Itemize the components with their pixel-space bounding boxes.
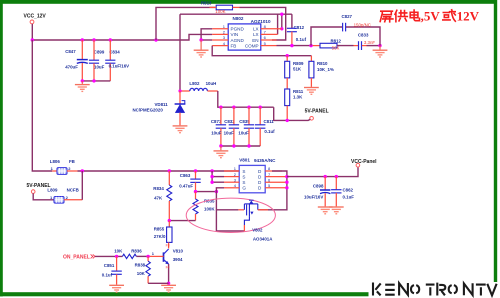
junction dots VCC-Panel rail — [324, 175, 338, 178]
svg-text:10K: 10K — [137, 271, 146, 276]
transistor Q1 V810 3904 — [148, 248, 183, 283]
junction dots output rail — [219, 106, 262, 109]
capacitor C833 — [354, 33, 376, 51]
junction dot AGND — [199, 38, 202, 41]
svg-text:AGND: AGND — [231, 38, 245, 43]
svg-text:VD811: VD811 — [155, 102, 169, 107]
ground below R810 — [304, 88, 319, 95]
wire PGND pin1 to ground junction — [201, 29, 212, 40]
V — [487, 284, 496, 296]
svg-text:56K: 56K — [332, 45, 340, 50]
wire left vertical from 12V bus down to L806 — [32, 40, 52, 171]
svg-text:3.3nF: 3.3nF — [364, 40, 376, 45]
capacitor C811 — [255, 107, 275, 146]
svg-text:10uF/16V: 10uF/16V — [304, 194, 323, 199]
svg-text:EN: EN — [252, 38, 258, 43]
电 — [410, 10, 419, 21]
svg-text:C862: C862 — [343, 187, 354, 192]
inductor L802 10uH — [180, 81, 218, 91]
svg-text:0.1uf: 0.1uf — [264, 129, 275, 134]
svg-text:LX: LX — [253, 32, 259, 37]
transistor Q3 V802 AO3401A — [244, 200, 273, 242]
junction dot R811 bottom — [286, 119, 289, 122]
svg-text:L802: L802 — [189, 81, 200, 86]
svg-text:R834: R834 — [153, 186, 164, 191]
svg-text:10uF: 10uF — [94, 64, 105, 69]
ground below input caps — [75, 81, 90, 92]
svg-text:S: S — [242, 180, 245, 185]
svg-text:10uF: 10uF — [224, 131, 235, 136]
wire FB pin4 run to divider node — [212, 46, 311, 56]
svg-text:ON_PANEL: ON_PANEL — [63, 254, 90, 260]
ground below VD811 — [173, 126, 188, 133]
svg-text:G: G — [242, 186, 246, 191]
svg-text:10K_1%: 10K_1% — [317, 67, 334, 72]
svg-text:0.1uf: 0.1uf — [296, 37, 307, 42]
svg-text:R836: R836 — [131, 248, 142, 253]
op-amp U1 buck regulator N802 AOZ1010 — [212, 16, 282, 50]
svg-text:C863: C863 — [180, 173, 191, 178]
svg-text:NC/PMEG2020: NC/PMEG2020 — [133, 108, 164, 113]
capacitor C862 — [331, 177, 354, 207]
transistor Q2 V801 MOSFET 9435A/NC — [224, 158, 287, 193]
svg-text:VIN: VIN — [231, 32, 239, 37]
wire R838 bottom to emitter — [148, 282, 169, 284]
ground at AGND — [194, 40, 209, 57]
wire R813 right to EN pin6 of N802 — [240, 7, 286, 40]
wire switch node vertical down to L802 — [179, 14, 181, 91]
svg-text:C851: C851 — [104, 263, 115, 268]
svg-text:VCC_12V: VCC_12V — [24, 14, 47, 20]
capacitor C873 — [211, 107, 226, 146]
svg-text:C827: C827 — [342, 14, 353, 19]
svg-text:0.1uF/16V: 0.1uF/16V — [109, 64, 130, 69]
svg-text:10uF: 10uF — [211, 131, 222, 136]
resistor R838 — [135, 256, 151, 283]
svg-text:1: 1 — [50, 195, 53, 200]
diode VD811 NC/PMEG2020 — [133, 91, 186, 125]
wire output rail to 5V-PANEL terminal — [274, 107, 311, 120]
junction dots on LX node — [280, 13, 283, 31]
svg-text:2: 2 — [66, 195, 69, 200]
N — [464, 283, 473, 295]
svg-text:100K: 100K — [215, 9, 225, 14]
wire LX pin7 riser — [277, 14, 279, 34]
junction dot R838 top — [146, 255, 149, 258]
ferrite bead L806 FB — [50, 159, 78, 174]
wire 5V/12V select bus to V801 — [78, 170, 240, 172]
node VCC-Panel terminal — [351, 159, 377, 167]
junction dots gate net — [194, 190, 218, 193]
svg-text:L809: L809 — [47, 187, 58, 192]
capacitor C847 — [65, 40, 88, 81]
wire output rail after L802 — [218, 91, 274, 107]
svg-text:R809: R809 — [293, 61, 304, 66]
svg-text:1.3K: 1.3K — [293, 94, 303, 99]
ground below C862 — [329, 207, 344, 214]
供 — [395, 10, 407, 21]
wire AGND pin3 to ground junction — [201, 39, 212, 41]
N — [399, 283, 408, 296]
wire LX pin8 riser — [281, 14, 283, 29]
svg-text:10uH: 10uH — [206, 81, 217, 86]
capacitor C898 — [304, 177, 330, 207]
ferrite bead L809 NCFB — [33, 187, 82, 203]
ground right of C833 — [373, 46, 388, 57]
junction dots on 12V bus — [31, 38, 158, 41]
junction dots on select bus — [81, 169, 214, 172]
svg-text:51K: 51K — [293, 67, 302, 72]
svg-text:0.47uF: 0.47uF — [179, 184, 193, 189]
svg-text:10K: 10K — [114, 248, 123, 253]
wire V801 source pins tie riser — [211, 171, 213, 182]
svg-text:1: 1 — [51, 166, 54, 171]
svg-text:LX: LX — [253, 27, 259, 32]
junction dot R855 top — [168, 219, 171, 222]
svg-text:C899: C899 — [94, 50, 105, 55]
svg-text:L806: L806 — [50, 159, 61, 164]
svg-text:47K: 47K — [154, 195, 163, 200]
svg-text:NCFB: NCFB — [67, 187, 79, 192]
svg-text:V801: V801 — [239, 158, 250, 163]
svg-text:10uF: 10uF — [238, 131, 249, 136]
svg-text:9435A/NC: 9435A/NC — [254, 158, 276, 163]
junction dots drain bus — [285, 175, 288, 190]
svg-text:S: S — [242, 175, 245, 180]
capacitor C835 — [238, 107, 254, 146]
svg-text:C811: C811 — [264, 119, 275, 124]
svg-text:F4: F4 — [166, 266, 170, 270]
O — [411, 285, 419, 293]
T — [476, 285, 486, 296]
svg-text:2: 2 — [68, 166, 71, 171]
capacitor C812 (LX to COMP) — [287, 14, 307, 45]
capacitor C827 (parallel 150p) — [311, 14, 380, 45]
junction dots caps bottom rail — [219, 144, 251, 147]
capacitor C863 — [179, 171, 201, 192]
svg-text:PGND: PGND — [231, 27, 245, 32]
wire pin3 stub to riser — [212, 181, 224, 183]
resistor R836 — [114, 248, 148, 258]
ground below C851 — [109, 285, 124, 292]
svg-text:COMP: COMP — [245, 43, 259, 48]
junction dot C833/C827 ground node — [378, 44, 381, 47]
capacitor C851 — [102, 256, 122, 284]
resistor R834 — [153, 171, 172, 221]
capacitor C899 — [89, 40, 105, 81]
wire V801 gate pin4 riser down — [216, 188, 244, 231]
R — [437, 283, 445, 296]
svg-text:150p/NC: 150p/NC — [354, 23, 371, 28]
wire 12V bus horizontal — [32, 34, 212, 40]
highlight ellipse around V802 — [186, 198, 275, 232]
wire V802 drain stub to drain bus — [258, 209, 268, 211]
svg-text:FB: FB — [231, 43, 237, 48]
O — [449, 285, 457, 293]
node ON_PANEL input — [63, 254, 95, 260]
svg-text:27K/0: 27K/0 — [154, 234, 166, 239]
svg-text:R855: R855 — [154, 226, 165, 231]
junction dot C851 tap — [115, 255, 118, 258]
node 5V-PANEL output terminal — [305, 109, 329, 121]
svg-text:R838: R838 — [135, 263, 146, 268]
resistor R811 — [285, 78, 304, 121]
wire ON_PANEL to R836 — [95, 255, 122, 257]
watermark logo KENOTRONTV — [373, 283, 497, 296]
T — [426, 285, 435, 296]
wire input cap bottom rail — [82, 80, 110, 82]
svg-text:3904: 3904 — [173, 257, 183, 262]
wire VCC-Panel rail — [287, 167, 358, 177]
svg-text:470uF: 470uF — [65, 64, 78, 69]
wire output caps bottom rail — [221, 145, 260, 147]
ground below V810 emitter — [161, 282, 176, 293]
junction dots source riser — [210, 175, 213, 184]
resistor R835 — [193, 192, 215, 221]
wire V801 drain bus vertical — [258, 171, 287, 210]
svg-text:F3: F3 — [166, 244, 170, 248]
svg-text:0.1uF: 0.1uF — [343, 195, 355, 200]
wire COMP network horizontal — [277, 45, 312, 47]
svg-text:VCC-Panel: VCC-Panel — [351, 159, 377, 165]
svg-text:S: S — [242, 169, 245, 174]
wire C833 to ground node — [367, 45, 381, 47]
resistor R809 — [285, 56, 304, 78]
svg-text:100K: 100K — [204, 206, 215, 211]
wire LX node horizontal from switch-node vertical — [180, 13, 292, 15]
resistor R812 — [320, 38, 354, 50]
svg-text:R812: R812 — [331, 38, 342, 43]
resistor R810 — [309, 56, 334, 87]
svg-text:C847: C847 — [65, 49, 76, 54]
ground below C898 — [318, 207, 333, 214]
svg-text:R811: R811 — [293, 89, 304, 94]
wire gate net horizontal C863 to pin4 riser — [196, 191, 217, 193]
svg-text:AOZ1010: AOZ1010 — [251, 19, 271, 24]
node 5V-PANEL input terminal — [27, 183, 51, 193]
junction dot switch node at L802 — [178, 89, 181, 92]
capacitor C834 — [105, 40, 129, 81]
capacitor C832 — [224, 107, 240, 146]
wire V802 gate stub from gate riser — [216, 209, 244, 211]
svg-text:R810: R810 — [317, 61, 328, 66]
svg-text:5V-PANEL: 5V-PANEL — [305, 109, 329, 115]
svg-text:R813: R813 — [201, 1, 212, 6]
junction dots on input cap bottom rail — [81, 79, 96, 82]
svg-text:C898: C898 — [313, 183, 324, 188]
svg-text:1: 1 — [152, 251, 155, 256]
svg-text:C833: C833 — [358, 33, 369, 38]
node VCC_12V terminal — [24, 14, 47, 24]
svg-text:0.1uf: 0.1uf — [102, 273, 113, 278]
ground below output caps — [214, 146, 229, 158]
junction dots on COMP wire — [290, 44, 313, 47]
junction dot FB node — [286, 54, 289, 57]
wire R813 left feed vertical — [156, 7, 216, 40]
K — [373, 283, 381, 296]
svg-text:,5V: ,5V — [421, 9, 441, 24]
wire VCC_12V vertical drop to 12V bus — [31, 24, 33, 40]
svg-text:V802: V802 — [252, 227, 263, 232]
svg-text:FB: FB — [69, 159, 75, 164]
resistor R813 — [201, 1, 240, 15]
svg-text:12V: 12V — [457, 9, 480, 24]
wire R834/R835 bottom tie — [169, 220, 195, 222]
svg-text:N802: N802 — [233, 16, 244, 21]
resistor R855 — [154, 221, 172, 249]
屏 — [380, 11, 393, 22]
wire pin2 stub to riser — [212, 176, 224, 178]
title 屏供电,5V或12V — [380, 10, 419, 22]
E — [385, 285, 395, 295]
或 — [443, 10, 456, 21]
svg-text:V810: V810 — [173, 248, 184, 253]
svg-text:AO3401A: AO3401A — [253, 237, 273, 242]
wire L809 riser to select bus — [81, 171, 83, 200]
